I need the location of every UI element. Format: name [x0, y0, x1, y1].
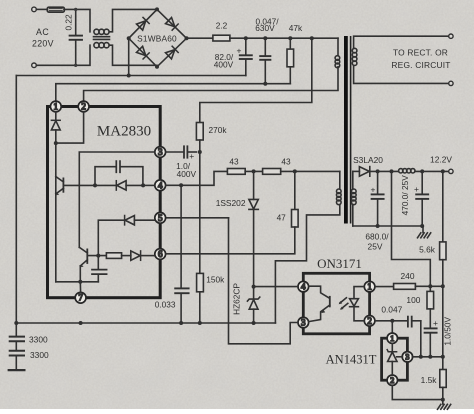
wire MA2830 pin5 line	[166, 217, 229, 219]
pin 7 MA2830	[75, 292, 86, 303]
wire down to AN1431T pin1	[391, 321, 393, 334]
wire 270k feed	[200, 38, 312, 122]
wire 240 to divider node	[415, 285, 442, 287]
node 0.047 bottom	[263, 82, 267, 86]
node junction fuse/cap	[74, 8, 77, 11]
wire pin2 internal	[56, 112, 84, 143]
diode lower-left arm	[137, 46, 150, 59]
capacitor 0.033	[175, 185, 188, 323]
wire secondary 12V top	[352, 171, 354, 189]
svg-text:43: 43	[229, 156, 239, 166]
node ref divider joint	[441, 355, 445, 359]
node divider top	[428, 284, 432, 288]
diode internal pin6	[122, 251, 155, 260]
node pin7 joint	[78, 280, 82, 284]
diode S3LA20	[359, 167, 369, 177]
pin 1 MA2830	[50, 101, 61, 112]
node 680 cap tap	[376, 169, 380, 173]
svg-text:150k: 150k	[206, 275, 225, 285]
svg-text:47: 47	[277, 213, 287, 223]
svg-text:2: 2	[367, 316, 372, 326]
resistor 5.6k	[440, 242, 446, 260]
pin 1 ON3171	[364, 281, 375, 292]
LED opto	[350, 287, 365, 321]
wire primary top	[337, 38, 339, 55]
AC terminal top	[32, 7, 37, 12]
wire choke to bridge top	[109, 9, 157, 31]
node 1SS202 top	[252, 169, 256, 173]
transistor Q2	[79, 247, 87, 281]
resistor 270k	[196, 123, 203, 141]
transistor Q1	[56, 143, 64, 282]
capacitor 1.0/400V	[166, 146, 197, 157]
wire secondary ground line	[353, 225, 423, 227]
node bus joint	[14, 321, 18, 325]
wire 43 to aux	[281, 170, 340, 172]
inductor output choke	[399, 169, 415, 173]
bridge rectifier S1WBA60	[127, 7, 189, 68]
node 0.047 tap	[263, 36, 267, 40]
svg-text:0.033: 0.033	[155, 299, 176, 309]
chip MA2830 box	[48, 107, 161, 298]
wire divider vertical	[442, 286, 444, 369]
resistor 1.5k	[440, 370, 446, 388]
svg-text:ON3171: ON3171	[317, 256, 362, 271]
inductor L1 common-mode choke	[94, 29, 110, 48]
wire left ground bus vertical	[15, 76, 17, 324]
svg-text:400V: 400V	[177, 169, 197, 179]
wire pin3 internal	[79, 152, 154, 247]
wire choke to bridge bottom	[109, 45, 157, 65]
wire 150k to ground line	[199, 292, 201, 323]
svg-text:240: 240	[401, 271, 415, 281]
svg-text:3300: 3300	[30, 350, 49, 360]
node 1.0/400V junction	[198, 150, 202, 154]
wire HV rail	[230, 37, 338, 39]
capacitor 82.0/400V	[240, 38, 252, 75]
resistor 2.2	[213, 35, 230, 41]
node 5.6k tap	[441, 169, 445, 173]
wire	[36, 45, 90, 65]
capacitor 0.22	[70, 9, 82, 65]
pin 4 ON3171	[298, 281, 309, 292]
resistor 150k	[197, 273, 204, 291]
wire between 43s	[245, 170, 262, 172]
svg-text:470.0/ 25V: 470.0/ 25V	[400, 175, 410, 216]
node collector	[54, 141, 58, 145]
wire bridge minus down	[128, 38, 130, 75]
node junction cap bottom	[74, 64, 77, 67]
svg-text:400V: 400V	[214, 60, 234, 70]
wire AN1431T pin2 to ground line	[392, 385, 443, 399]
svg-text:1: 1	[367, 282, 372, 292]
wire 12V rail	[370, 170, 399, 172]
svg-text:REG. CIRCUIT: REG. CIRCUIT	[391, 60, 450, 70]
wire primary minus bus	[16, 75, 246, 77]
svg-text:MA2830: MA2830	[97, 124, 151, 140]
AC terminal bottom	[32, 63, 37, 68]
svg-text:25V: 25V	[368, 241, 383, 251]
node 82uF tap	[244, 36, 248, 40]
svg-text:TO RECT. OR: TO RECT. OR	[393, 47, 448, 57]
svg-text:7: 7	[78, 293, 83, 303]
svg-text:47k: 47k	[289, 23, 303, 33]
node 270k feed tap	[310, 36, 314, 40]
svg-text:1: 1	[54, 102, 59, 112]
capacitor 0.047/630V	[260, 38, 270, 83]
wire feedback feed	[392, 171, 431, 286]
diode internal pin4	[95, 181, 143, 190]
svg-text:220V: 220V	[32, 39, 54, 49]
pin 3 MA2830	[155, 147, 166, 158]
resistor 43 first	[227, 169, 245, 175]
ground chassis bar	[9, 369, 25, 371]
svg-text:+: +	[371, 185, 376, 195]
capacitor 470.0/25V	[416, 171, 428, 226]
terminal 12.2V	[449, 169, 453, 173]
chip AN1431T box	[382, 338, 408, 380]
svg-text:630V: 630V	[255, 23, 275, 33]
svg-text:1SS202: 1SS202	[216, 198, 246, 208]
ground secondary	[418, 226, 431, 238]
diode upper-right arm	[166, 18, 179, 31]
wire opto pin3 to MA2830 pin5	[229, 218, 299, 344]
capacitor 1.0/50V	[425, 328, 437, 356]
diode lower-right arm	[166, 46, 179, 59]
node 0.047 ref tap	[419, 355, 423, 359]
wire 270k to 150k vertical	[199, 140, 201, 273]
svg-text:1.5k: 1.5k	[421, 375, 438, 385]
svg-text:270k: 270k	[209, 125, 228, 135]
resistor 240	[394, 284, 416, 290]
wire secondary top to terminals	[354, 36, 449, 48]
svg-text:+: +	[433, 318, 438, 328]
wire to pin4	[143, 184, 155, 186]
diode 1SS202	[249, 171, 258, 286]
wire pin2 drain line	[84, 67, 338, 101]
wire aux bottom return	[275, 205, 339, 323]
svg-text:4: 4	[301, 282, 306, 292]
wire Q2 base	[87, 255, 106, 257]
node zener tap	[252, 285, 256, 289]
wire pin4 external	[166, 171, 228, 185]
light arrows	[339, 298, 348, 310]
transformer T1 core	[344, 36, 348, 224]
svg-text:100: 100	[406, 295, 420, 305]
pin 3 ON3171	[298, 317, 309, 328]
chip ON3171 box	[303, 273, 369, 334]
pin 5 MA2830	[155, 212, 166, 223]
node 0.033 tap	[179, 183, 183, 187]
svg-text:2: 2	[390, 376, 394, 385]
transistor photo NPN	[309, 286, 330, 321]
wire ref line pin3	[412, 356, 442, 358]
svg-text:2: 2	[81, 102, 86, 112]
resistor 43 second	[263, 169, 281, 175]
pin 3 AN1431T	[402, 352, 412, 362]
svg-text:1: 1	[390, 334, 394, 343]
wire opto pin2 line	[375, 320, 408, 322]
wire secondary 12V bottom	[352, 205, 354, 226]
winding secondary 12V	[352, 189, 357, 205]
node Q2 base	[96, 254, 100, 258]
wire 5.6k from rail	[442, 171, 444, 242]
svg-text:43: 43	[281, 156, 291, 166]
svg-text:680.0/: 680.0/	[365, 232, 389, 242]
node feedback feed tap	[390, 169, 394, 173]
resistor 47k	[287, 38, 294, 83]
node 47 top joint	[293, 169, 297, 173]
diode upper-left arm	[137, 17, 150, 30]
svg-text:+: +	[414, 184, 419, 194]
svg-text:5: 5	[158, 213, 163, 223]
ground bottom right	[438, 404, 451, 409]
node base left	[93, 183, 97, 187]
node 5.6k bottom joint	[441, 284, 445, 288]
diode internal pin5	[98, 216, 154, 256]
node bridge minus on bus	[127, 74, 131, 78]
svg-text:4: 4	[158, 180, 163, 190]
capacitor internal pin4	[95, 161, 143, 185]
svg-text:+: +	[189, 151, 194, 161]
node 47k tap	[288, 36, 292, 40]
wire pin1 snubber line	[56, 84, 290, 101]
node 680 bottom	[376, 224, 380, 228]
capacitor 3300 second	[10, 351, 24, 370]
resistor internal	[106, 253, 121, 259]
wire opto pin1 to 240	[375, 286, 394, 288]
diode clamp internal	[51, 112, 60, 143]
node 0.033 bottom tap	[179, 321, 183, 325]
svg-text:3: 3	[158, 147, 163, 157]
capacitor 3300 first	[10, 323, 24, 350]
wire aux top	[339, 171, 341, 189]
wire bridge plus to 2.2	[187, 37, 213, 39]
wire	[36, 8, 47, 10]
pin 4 MA2830	[155, 180, 166, 191]
svg-text:3300: 3300	[29, 334, 48, 344]
winding primary	[335, 56, 340, 68]
svg-text:S1WBA60: S1WBA60	[137, 33, 177, 43]
capacitor 680.0/25V	[372, 171, 384, 226]
winding secondary top	[352, 48, 357, 65]
wire to pin7	[79, 282, 81, 292]
svg-text:12.2V: 12.2V	[430, 155, 452, 165]
svg-text:3: 3	[405, 353, 409, 362]
node pin7 tap	[79, 321, 83, 325]
capacitor internal Q2	[92, 256, 107, 282]
terminal to rect bottom	[449, 81, 453, 85]
node ground tap	[420, 224, 424, 228]
svg-text:HZ62CP: HZ62CP	[232, 283, 242, 315]
node zener bottom	[252, 321, 256, 325]
node ground joint	[441, 398, 445, 402]
wire Q1 base	[63, 184, 95, 186]
svg-text:0.047: 0.047	[381, 304, 402, 314]
wire	[64, 9, 90, 31]
node 150k tap	[198, 321, 202, 325]
svg-text:S3LA20: S3LA20	[353, 155, 383, 165]
wire 0.047 down to ref line	[420, 321, 422, 357]
node 470 cap tap	[420, 169, 424, 173]
svg-text:5.6k: 5.6k	[419, 245, 436, 255]
node pin4 inner	[141, 183, 145, 187]
wire 12V rail after choke	[415, 170, 449, 172]
bottom white strip	[0, 409, 474, 414]
svg-text:+: +	[237, 46, 242, 56]
svg-text:2.2: 2.2	[216, 21, 228, 31]
capacitor 0.047 feedback	[408, 317, 421, 327]
pin 2 ON3171	[364, 316, 375, 327]
wire emitter bracket	[56, 281, 99, 283]
wire opto pin4 to zener node	[254, 286, 298, 288]
wire primary ground line	[16, 322, 275, 324]
svg-text:3: 3	[301, 318, 306, 328]
pin 6 MA2830	[155, 249, 166, 260]
zener TL431 internal	[387, 343, 402, 375]
node pin2 to AN1431 pin1	[390, 319, 394, 323]
zener HZ62CP	[247, 287, 259, 323]
resistor 100	[427, 286, 434, 328]
pin 2 MA2830	[78, 101, 89, 112]
wire 5.6k bottom	[442, 260, 444, 287]
wire 1.5k bottom	[442, 387, 444, 404]
svg-text:AC: AC	[36, 27, 49, 37]
pin 1 AN1431T	[387, 333, 397, 343]
terminal to rect top	[449, 34, 453, 38]
pin 2 AN1431T	[387, 375, 397, 385]
node 1.0/50V ref tap	[428, 355, 432, 359]
wire to S3LA20	[353, 170, 360, 172]
svg-text:1.0/50V: 1.0/50V	[442, 317, 452, 346]
fuse F1	[47, 7, 64, 12]
svg-text:0.22: 0.22	[64, 14, 74, 31]
svg-text:6: 6	[158, 249, 163, 259]
resistor 47	[166, 171, 298, 253]
winding aux	[337, 189, 342, 205]
svg-text:AN1431T: AN1431T	[326, 353, 377, 367]
